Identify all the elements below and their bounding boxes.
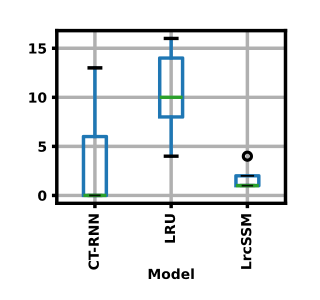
left spine: [56, 31, 59, 204]
upper whisker CT-RNN (6 to 13): [94, 68, 97, 137]
horizontal gridline y=5: [57, 145, 286, 148]
upper whisker LRU (14 up to 16): [170, 38, 173, 58]
lower whisker CT-RNN (zero length): [94, 194, 97, 197]
upper whisker LrcSSM (zero length): [246, 175, 249, 178]
x tick mark LRU: [170, 203, 172, 208]
box LrcSSM (Q1=1 Q3=2): [236, 176, 259, 186]
LRU: [165, 214, 175, 242]
10: [29, 92, 46, 103]
y tick label 15: [29, 43, 46, 53]
upper cap CT-RNN at 13: [89, 67, 100, 70]
bottom spine: [57, 202, 286, 205]
upper cap LRU at 16: [165, 37, 176, 40]
x axis label Model: [149, 268, 194, 279]
x tick mark CT-RNN: [94, 203, 97, 208]
y tick label 10: [29, 92, 46, 103]
LrcSSM: [241, 214, 252, 269]
lower cap LrcSSM at 1: [242, 184, 253, 187]
box LRU (Q1=8 Q3=14): [160, 58, 183, 117]
lower cap LRU at 4: [165, 155, 176, 158]
y tick label 5: [38, 142, 46, 152]
top spine: [57, 29, 286, 32]
box CT-RNN (Q1=0 Q3=6): [83, 137, 106, 196]
lower whisker LRU (8 down to 4): [170, 117, 173, 156]
lower cap CT-RNN at 0: [89, 194, 100, 197]
axes background: [57, 31, 286, 204]
cap overpaint LrcSSM at 1: [242, 185, 253, 187]
vertical gridline x=LrcSSM: [246, 31, 249, 204]
outlier marker LrcSSM at 4: [243, 152, 251, 160]
horizontal gridline y=10: [57, 96, 286, 99]
vertical gridline x=LRU: [170, 31, 173, 204]
right spine: [284, 31, 287, 204]
15: [29, 43, 46, 53]
x tick label CT-RNN (rotated 90): [88, 214, 99, 269]
cap overpaint CT-RNN at 0: [89, 194, 100, 196]
lower whisker LrcSSM (zero length): [246, 184, 249, 187]
y tick label 0: [38, 190, 46, 201]
median line CT-RNN at 0: [83, 194, 106, 197]
median line LrcSSM at 1: [236, 184, 259, 187]
y tick mark 5: [52, 145, 57, 147]
Model: [149, 268, 194, 279]
horizontal gridline y=15: [57, 47, 286, 50]
y tick mark 0: [52, 194, 57, 197]
horizontal gridline y=0: [57, 194, 286, 197]
y tick mark 10: [52, 96, 57, 98]
y tick mark 15: [52, 47, 57, 49]
median line LRU at 10: [160, 96, 183, 99]
5: [38, 142, 46, 152]
x tick label LrcSSM (rotated 90): [241, 214, 252, 269]
x tick mark LrcSSM: [246, 203, 248, 208]
vertical gridline x=CT-RNN: [94, 31, 97, 204]
x tick label LRU (rotated 90): [165, 214, 175, 242]
upper cap LrcSSM at 2: [242, 175, 253, 177]
CT-RNN: [88, 214, 99, 269]
0: [38, 190, 46, 201]
